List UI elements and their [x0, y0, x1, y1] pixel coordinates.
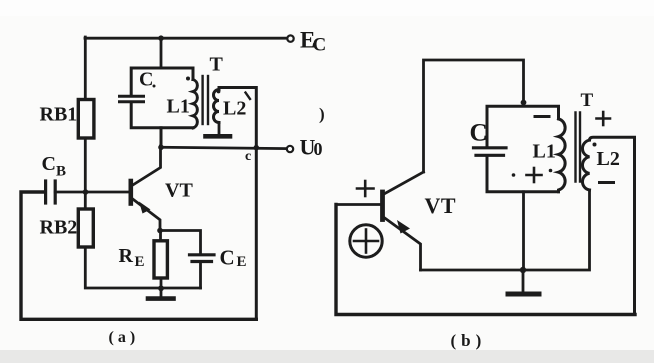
polarity dots in tank (b) — [512, 173, 516, 177]
wire: tank bottom lead (b) — [522, 192, 525, 270]
wire: left vertical, EC rail to RB1 — [84, 37, 87, 100]
transistor VT emitter arrow — [139, 202, 151, 214]
inductor L2 (a) winding — [214, 88, 257, 148]
terminal EC — [287, 35, 293, 41]
wire: emitter node to RE — [159, 231, 162, 242]
wire: ground stem (a) — [160, 288, 163, 298]
ground bar (b) — [508, 292, 539, 297]
node: tank top junction (b) — [521, 100, 527, 106]
inductor L1 (a) winding — [193, 80, 197, 128]
L2 polarity dot (b) — [593, 143, 597, 147]
svg-text:RB1: RB1 — [40, 104, 78, 126]
transformer T core (a) — [203, 76, 208, 124]
L1 polarity dot (a) — [186, 77, 190, 81]
wire: emitter to ground node (b) — [421, 269, 524, 272]
svg-text:B: B — [56, 164, 66, 180]
svg-text:C: C — [220, 246, 235, 270]
svg-text:C: C — [470, 120, 488, 147]
resistor RB1 — [78, 100, 94, 139]
node: collector/output junction — [158, 145, 164, 151]
transistor VT collector lead — [132, 146, 161, 186]
transistor VT (b) emitter lead — [384, 218, 421, 271]
capacitor C plates (a) — [120, 96, 144, 102]
svg-text:RB2: RB2 — [40, 217, 78, 239]
transistor VT emitter lead — [132, 199, 160, 231]
terminal U0 — [287, 146, 293, 152]
wire: L2 bottom lead to ground rail (b) — [523, 190, 590, 270]
capacitor CB — [46, 181, 56, 203]
svg-text:L1: L1 — [167, 96, 190, 118]
wire: base junction to transistor base — [85, 191, 129, 194]
node: ground rail junction — [158, 285, 164, 291]
wire: tank top lead — [160, 38, 163, 68]
plus sign near base (b) — [357, 181, 374, 196]
wire: EC supply rail (top) — [85, 37, 287, 40]
wire: feedback left loop (CB left lead, left side, bottom of a) — [21, 192, 256, 319]
wire: tank bottom lead to output rail — [160, 128, 163, 148]
wire: CB to base junction — [55, 191, 85, 194]
svg-text:T: T — [581, 90, 594, 111]
svg-text:VT: VT — [165, 180, 193, 202]
capacitor CE — [190, 255, 215, 262]
wire: left side and bottom of (b) — [336, 205, 635, 315]
svg-text:0: 0 — [314, 139, 323, 159]
svg-text:VT: VT — [425, 193, 457, 218]
svg-text:c: c — [245, 149, 251, 164]
wire: base lead (b) — [336, 203, 380, 206]
svg-text:E: E — [237, 254, 247, 270]
svg-text:E: E — [135, 254, 145, 270]
svg-text:C: C — [313, 35, 327, 56]
svg-text:(b): (b) — [451, 331, 487, 350]
wire: L2 to ground (a) — [218, 123, 221, 135]
wire: emitter node to CE — [160, 231, 201, 255]
svg-text:): ) — [319, 105, 325, 124]
transformer T core (b) — [576, 113, 581, 182]
wire: RB1 to base node — [84, 138, 87, 192]
top light band — [0, 0, 654, 16]
svg-text:L2: L2 — [597, 148, 620, 170]
node: ground junction (b) — [520, 267, 526, 273]
L2 polarity dot (a) — [217, 90, 221, 94]
tank loop (a): rect with capacitor C gap on left side — [131, 68, 193, 128]
ground under L2 (a) — [206, 134, 231, 139]
wire: RE bottom to ground rail — [160, 278, 163, 288]
transistor VT base bar — [129, 181, 134, 204]
capacitor C plates (b) — [474, 148, 507, 156]
ground bar (a) — [148, 296, 174, 301]
tank loop (b): rect with capacitor C gap on left side — [487, 106, 559, 192]
bottom gray band — [0, 350, 654, 363]
node: emitter junction — [157, 228, 163, 234]
resistor RB2 — [78, 209, 93, 247]
wire: RB2 to emitter ground rail — [85, 247, 200, 288]
transistor VT (b) base bar — [380, 192, 385, 220]
L2 tick mark (a) — [246, 93, 251, 100]
inductor L2 (b) winding — [582, 137, 634, 314]
wire: CE to ground rail — [199, 262, 202, 289]
svg-text:L2: L2 — [223, 98, 246, 120]
node: base bias junction — [83, 189, 89, 195]
wire: top loop of (b) — [424, 60, 524, 172]
inductor L1 (b) winding — [559, 119, 566, 192]
node: L2/feedback junction — [253, 145, 259, 151]
wire: ground stem (b) — [522, 270, 525, 292]
resistor RE — [154, 241, 167, 278]
transistor VT (b) emitter arrow — [397, 220, 410, 234]
minus sign in tank top (b) — [535, 115, 549, 118]
wire: output rail to U0 — [161, 147, 287, 148]
svg-text:R: R — [119, 245, 134, 267]
plus sign in tank bottom (b) — [527, 168, 542, 182]
svg-text:L1: L1 — [533, 141, 556, 163]
wire: base node to RB2 — [84, 192, 87, 209]
minus sign below L2 (b) — [600, 181, 614, 184]
plus sign right of T (b) — [597, 112, 611, 125]
wire: feedback right vertical (U0 rail to bottom) — [255, 148, 258, 320]
svg-text:(a): (a) — [109, 329, 140, 346]
svg-text:C: C — [42, 153, 56, 175]
current source symbol (b) — [350, 225, 382, 257]
node: tank top junction on EC rail — [158, 35, 164, 41]
svg-text:T: T — [210, 54, 224, 76]
svg-text:C: C — [139, 69, 153, 91]
transistor VT (b) collector lead — [384, 172, 424, 194]
